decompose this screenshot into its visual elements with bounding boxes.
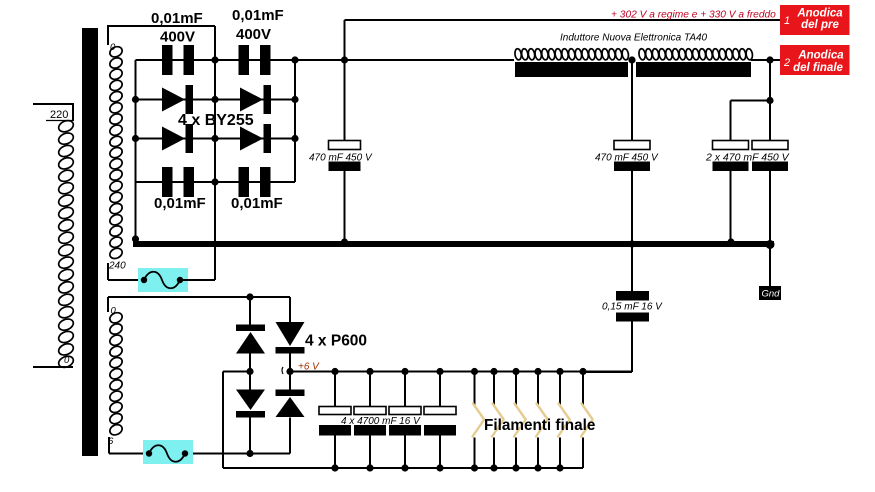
capacitor C1 0,01mF	[162, 45, 194, 75]
node cap C12 top	[401, 368, 408, 375]
wire secondary1 top	[107, 25, 215, 45]
wire cap C12 bottom	[404, 436, 406, 469]
svg-text:4 x P600: 4 x P600	[305, 333, 367, 350]
node row2 left	[132, 96, 139, 103]
capacitor C12 4700mF	[389, 407, 421, 436]
capacitor C8 470mF	[752, 141, 788, 172]
node row3 left	[132, 135, 139, 142]
label 400V top-right	[236, 26, 271, 43]
svg-text:4 x 4700 mF 16 V: 4 x 4700 mF 16 V	[341, 416, 421, 427]
capacitor C11 4700mF	[354, 407, 386, 436]
wire secondary2 to fuse2	[109, 437, 145, 454]
wire cap C9 bottom	[584, 321, 632, 372]
wire filament 2 upper	[493, 372, 495, 406]
svg-text:470 mF 450 V: 470 mF 450 V	[309, 153, 373, 164]
svg-text:Anodica: Anodica	[797, 50, 844, 62]
diode D8 P600	[276, 390, 305, 418]
wire cap C10 bottom	[334, 436, 336, 469]
wire filament 4 lower	[537, 438, 539, 469]
secondary winding 0-240	[108, 45, 124, 261]
wire filament 6 lower	[582, 438, 584, 469]
label 0,01mF bottom-left	[154, 195, 206, 212]
diode D3 BY255	[162, 124, 193, 153]
wire bridge2 colB bottom	[185, 418, 290, 454]
label 2 x 470 mF 450 V	[705, 152, 790, 164]
wire bridge2 colA bottom	[249, 418, 251, 454]
capacitor C13 4700mF	[424, 407, 456, 436]
wire row2 bridge1	[136, 99, 296, 101]
label 240	[108, 261, 126, 272]
svg-text:470 mF 450 V: 470 mF 450 V	[595, 153, 659, 164]
node row3 mid	[211, 135, 218, 142]
label C6 470 mF 450 V	[595, 153, 659, 164]
wire filament 1 lower	[474, 438, 476, 469]
wire filament 3 lower	[515, 438, 517, 469]
svg-text:400V: 400V	[160, 29, 195, 46]
svg-text:2 x 470 mF 450 V: 2 x 470 mF 450 V	[705, 152, 790, 164]
svg-text:240: 240	[108, 261, 126, 272]
node cap C12 bottom	[401, 464, 408, 471]
node filament 4 top	[534, 368, 541, 375]
wire to anodica pre	[770, 19, 782, 21]
label 0,01mF top-left	[151, 10, 203, 27]
label C5 470 mF 450 V	[309, 153, 373, 164]
node cap C11 top	[366, 368, 373, 375]
wire row1 bridge1	[136, 59, 296, 61]
terminal Gnd box	[759, 286, 781, 300]
node filament 3 bottom	[512, 464, 519, 471]
node filament 2 top	[490, 368, 497, 375]
wire secondary1 to fuse	[108, 263, 140, 280]
wire cap C12 top	[404, 372, 406, 408]
wire bridge2 colB top	[289, 297, 291, 322]
svg-text:0,01mF: 0,01mF	[232, 7, 284, 24]
ground bus	[133, 241, 774, 247]
label 0,01mF top-right	[232, 7, 284, 24]
diode D4 BY255	[240, 124, 271, 153]
fuse F2	[143, 440, 193, 464]
svg-text:Filamenti finale: Filamenti finale	[484, 417, 595, 434]
wire filament 6 upper	[582, 372, 584, 406]
capacitor C10 4700mF	[319, 407, 351, 436]
node left rail to bus	[132, 235, 139, 242]
svg-text:Induttore Nuova Elettronica TA: Induttore Nuova Elettronica TA40	[560, 33, 708, 44]
node row4 mid	[211, 178, 218, 185]
label 6	[108, 436, 114, 447]
node cap C13 top	[436, 368, 443, 375]
terminal 2 Anodica del finale	[780, 45, 850, 75]
node cap C13 bottom	[436, 464, 443, 471]
node filament 5 top	[556, 368, 563, 375]
wire filament 5 lower	[559, 438, 561, 469]
svg-text:0,01mF: 0,01mF	[231, 195, 283, 212]
label Filamenti finale	[484, 417, 595, 434]
capacitor C5 470mF	[329, 141, 361, 172]
wire minus rail riser	[223, 372, 250, 469]
svg-text:0,15 mF 16 V: 0,15 mF 16 V	[602, 302, 663, 313]
svg-text:Anodica: Anodica	[796, 8, 843, 20]
wire filament 1 upper	[474, 372, 476, 406]
label 220	[46, 109, 74, 121]
svg-text:0,01mF: 0,01mF	[154, 195, 206, 212]
node cap C6 bus	[628, 240, 635, 247]
wire cap C8 bottom	[769, 171, 771, 242]
wire cap C11 bottom	[369, 436, 371, 469]
primary winding 220V	[57, 119, 75, 370]
wire bridge2 colB mid	[289, 354, 291, 391]
svg-text:del pre: del pre	[801, 19, 839, 31]
svg-text:1: 1	[784, 15, 790, 27]
wire right rail bridge1	[294, 60, 296, 182]
node row2 mid	[211, 96, 218, 103]
label +302V	[611, 10, 776, 21]
node caps junction	[766, 97, 773, 104]
diode D7 P600	[236, 390, 265, 418]
capacitor C3 0,01mF	[162, 167, 194, 197]
node row3 right	[291, 135, 298, 142]
label 0 secondary1	[110, 42, 116, 53]
wire fuse1 to bridge mid rail	[180, 182, 215, 280]
transformer T1 core	[82, 28, 98, 456]
label +6 V	[298, 362, 320, 373]
wire secondary2 top	[108, 297, 290, 312]
label 0 primary	[64, 355, 70, 366]
wire cap C6 bottom	[631, 171, 633, 292]
wire cap C5 top	[344, 60, 346, 141]
label Induttore Nuova Elettronica TA40	[560, 33, 708, 44]
node cap C11 bottom	[366, 464, 373, 471]
wire bridge2 colA top	[249, 297, 251, 325]
label 0,15 mF 16 V	[602, 302, 663, 313]
wire filament 2 lower	[493, 438, 495, 469]
capacitor C2 0,01mF	[239, 45, 271, 75]
node bridge2 colA ac2	[246, 450, 253, 457]
node filament 4 bottom	[534, 464, 541, 471]
svg-text:400V: 400V	[236, 26, 271, 43]
node filament 1 bottom	[471, 464, 478, 471]
node inductor out	[766, 56, 773, 63]
inductor L1 core bar	[515, 62, 751, 77]
diode D5 P600	[236, 325, 265, 354]
diode D2 BY255	[240, 85, 271, 114]
label 0,01mF bottom-right	[231, 195, 283, 212]
node cap C5 bus	[341, 238, 348, 245]
node cap C7 bus	[727, 238, 734, 245]
inductor L1 winding	[514, 48, 753, 60]
svg-text:+ 302 V a regime e + 330 V a f: + 302 V a regime e + 330 V a freddo	[611, 10, 776, 21]
svg-text:0: 0	[64, 355, 70, 366]
wire middle rail bridge1	[214, 26, 216, 182]
wire filament 5 upper	[559, 372, 561, 406]
node row2 right	[291, 96, 298, 103]
node bridge2 colA out	[246, 368, 253, 375]
wire row1 to inductor	[295, 59, 514, 61]
secondary winding 0-6	[108, 311, 124, 437]
wire bottom rail	[223, 467, 583, 469]
node filament 6 top	[579, 368, 586, 375]
node inductor tap	[628, 56, 635, 63]
svg-text:2: 2	[783, 57, 790, 69]
svg-text:0,01mF: 0,01mF	[151, 10, 203, 27]
diode D6 P600	[276, 322, 305, 354]
wire bus to gnd	[769, 248, 771, 287]
wire +302V line	[345, 19, 781, 21]
node cap C10 bottom	[331, 464, 338, 471]
wire filament 4 upper	[537, 372, 539, 406]
wire inductor right end	[751, 59, 782, 61]
node row1 mid	[211, 56, 218, 63]
wire cap C11 top	[369, 372, 371, 408]
node row1 right	[291, 56, 298, 63]
wire +302V riser	[344, 20, 346, 60]
svg-text:4 x BY255: 4 x BY255	[178, 112, 254, 129]
node inductor feed	[341, 56, 348, 63]
wire anodica finale riser	[769, 60, 771, 141]
node bridge2 colB out	[286, 368, 293, 375]
capacitor C7 470mF	[713, 141, 749, 172]
wire cap C5 bottom	[344, 171, 346, 244]
wire cap C13 top	[439, 372, 441, 408]
capacitor C6 470mF	[614, 141, 650, 172]
wire row3 bridge1	[136, 138, 296, 140]
svg-text:del finale: del finale	[793, 62, 843, 74]
node bus right end	[766, 240, 775, 249]
node cap C10 top	[331, 368, 338, 375]
node filament 1 top	[471, 368, 478, 375]
wire row4 bridge1	[136, 181, 296, 183]
wire left rail bridge1	[135, 60, 137, 241]
node filament 2 bottom	[490, 464, 497, 471]
fuse F1	[138, 268, 188, 292]
label 4 x 4700 mF 16 V	[341, 416, 421, 427]
label 0 secondary2	[111, 306, 117, 317]
capacitor C9 0,15mF	[616, 291, 649, 322]
label 4 x P600	[305, 333, 367, 350]
wire cap C7 bottom	[730, 171, 732, 242]
diode D1 BY255	[162, 85, 193, 114]
node bridge2 colA ac	[246, 293, 253, 300]
wire primary top stub	[33, 103, 73, 120]
wire cap C10 top	[334, 372, 336, 408]
wire cap C7 top	[731, 101, 771, 142]
wire bridge2 colA mid	[249, 354, 251, 391]
terminal 1 Anodica del pre	[780, 5, 850, 35]
wire filament 3 upper	[515, 372, 517, 406]
label 400V top-left	[160, 29, 195, 46]
filament arrows	[473, 404, 593, 437]
artifact tick	[282, 367, 283, 374]
svg-text:220: 220	[50, 109, 68, 121]
node filament 3 top	[512, 368, 519, 375]
node filament 5 bottom	[556, 464, 563, 471]
capacitor C4 0,01mF	[239, 167, 271, 197]
wire cap C13 bottom	[439, 436, 441, 469]
wire +6V rail	[290, 371, 632, 373]
wire primary bottom stub	[33, 366, 73, 368]
wire inductor tap down	[631, 60, 633, 141]
label 4 x BY255	[178, 112, 254, 129]
svg-text:Gnd: Gnd	[762, 289, 781, 300]
